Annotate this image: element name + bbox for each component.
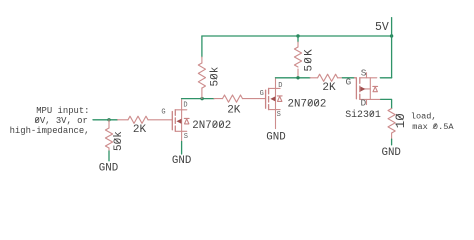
wire Q3 drain to load — [381, 99, 392, 108]
svg-text:D: D — [278, 82, 282, 90]
svg-text:load,: load, — [411, 112, 437, 122]
wire R6 to Q3 gate — [342, 77, 354, 79]
body diode D (Q2) — [277, 96, 282, 102]
arrow (N-channel) — [176, 119, 181, 124]
gate pin bend + gate bar — [354, 78, 356, 99]
pin axis vertical — [275, 88, 277, 109]
svg-text:5V: 5V — [375, 21, 389, 34]
wire R7 to ground — [391, 139, 393, 145]
transistor Q1 2N7002 — [161, 99, 231, 142]
gate bar — [171, 112, 173, 130]
node MPU input label — [10, 106, 90, 136]
svg-text:G: G — [346, 77, 352, 88]
pin S (Q1) — [181, 131, 183, 141]
transistor Q2 2N7002 — [260, 78, 327, 129]
svg-text:S: S — [184, 133, 188, 141]
svg-text:S: S — [277, 111, 281, 119]
wire 5V rail left drop — [201, 36, 203, 57]
wire 5V to Q3 source — [380, 77, 391, 79]
svg-text:D: D — [183, 102, 187, 110]
svg-text:2K: 2K — [227, 104, 241, 116]
wire MPU input to R1/R2 — [93, 119, 118, 121]
svg-text:GND: GND — [172, 155, 191, 167]
svg-text:2N7002: 2N7002 — [288, 99, 327, 111]
resistor R3 50k pullup — [198, 57, 205, 99]
resistor R5 2K series — [214, 95, 266, 102]
bottom rail (drain) — [360, 98, 381, 100]
wire 5V stem — [391, 18, 393, 78]
wire Q1 source to ground — [181, 142, 183, 155]
wire top 5V rail — [202, 35, 392, 37]
pin D (Q2) — [275, 78, 277, 89]
junction Q1 drain — [200, 97, 203, 100]
junction Q2 drain — [296, 76, 299, 79]
svg-text:MPU input:: MPU input: — [36, 106, 89, 116]
resistor R1 50k pulldown — [105, 120, 112, 151]
svg-text:high-impedance,: high-impedance, — [10, 126, 90, 136]
pin S (Q3) — [366, 73, 368, 78]
svg-text:0V, 3V, or: 0V, 3V, or — [35, 116, 88, 126]
pin D (Q3) — [366, 99, 368, 104]
pin D (Q1) — [181, 99, 183, 110]
svg-text:2N7002: 2N7002 — [192, 120, 231, 132]
mid connection — [360, 88, 371, 90]
body diode D (Q1) — [184, 118, 189, 124]
svg-text:Si2301: Si2301 — [345, 109, 381, 120]
svg-text:S: S — [361, 68, 367, 79]
arrow (P-channel) — [360, 87, 365, 92]
resistor R2 2K series — [118, 116, 173, 123]
junction input node — [107, 118, 110, 121]
resistor R6 2K series — [310, 74, 342, 81]
channel segments — [359, 78, 361, 100]
svg-text:GND: GND — [99, 163, 118, 175]
top rail (source) — [360, 77, 377, 79]
bottom stub (source) — [269, 109, 281, 111]
pin axis vertical — [369, 78, 371, 100]
pin S (Q2) — [275, 110, 277, 129]
resistor R4 50K pullup — [294, 36, 301, 78]
top stub (drain) — [175, 109, 187, 111]
svg-text:D: D — [360, 97, 366, 108]
gate bar — [265, 90, 267, 108]
svg-text:max 0.5A: max 0.5A — [412, 122, 454, 132]
slashed zeros overlay — [35, 58, 436, 144]
top stub (drain) — [269, 87, 281, 89]
channel segments — [268, 88, 270, 109]
junction top rail at R4 — [296, 34, 299, 37]
junction top rail at 5V — [390, 34, 393, 37]
svg-text:50k: 50k — [113, 131, 125, 151]
channel segments — [174, 110, 176, 132]
label load rating — [411, 112, 455, 133]
resistor R7 10 load — [388, 109, 395, 140]
svg-text:G: G — [260, 90, 264, 98]
svg-text:GND: GND — [266, 132, 285, 144]
svg-text:50K: 50K — [303, 48, 315, 71]
wire Q1 drain node — [182, 98, 214, 100]
svg-text:2K: 2K — [133, 124, 147, 136]
svg-text:G: G — [161, 109, 165, 117]
wire R1 to ground — [108, 151, 110, 161]
svg-text:50k: 50k — [209, 66, 221, 86]
arrow (N-channel) — [270, 96, 275, 101]
svg-text:GND: GND — [381, 147, 400, 159]
svg-text:10: 10 — [394, 113, 408, 128]
wire Q2 drain node — [276, 77, 311, 79]
power 5V — [375, 18, 392, 78]
body diode D (Q3) — [373, 86, 378, 91]
pin axis vertical — [181, 110, 183, 132]
bottom stub (source) — [175, 130, 187, 132]
svg-text:2K: 2K — [322, 82, 336, 94]
transistor Q3 Si2301 — [345, 68, 381, 121]
